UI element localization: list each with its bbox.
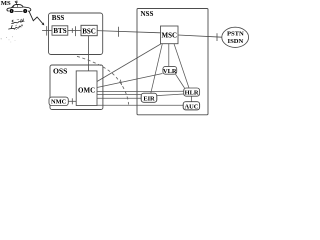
OSS box xyxy=(50,65,103,110)
NMC box xyxy=(49,97,68,106)
wire VLR to HLR xyxy=(176,74,185,88)
BSS box xyxy=(49,13,103,55)
wire OMC to VLR xyxy=(97,74,163,88)
EIR box xyxy=(141,93,157,102)
tick on OMC-VLR wire xyxy=(120,80,121,85)
tick Abis interface a xyxy=(71,28,73,33)
OMC box xyxy=(76,71,97,106)
wire Um stub into BTS xyxy=(42,29,52,31)
svg-text:VLR: VLR xyxy=(163,68,177,75)
wire HLR to AUC xyxy=(191,96,193,102)
tick A interface xyxy=(118,27,120,37)
MS antenna xyxy=(15,1,18,4)
wire BSC to MSC (A interface) xyxy=(97,31,160,33)
svg-text:EIR: EIR xyxy=(143,95,155,102)
wire OMC to EIR upper xyxy=(97,94,141,96)
svg-text:BTS: BTS xyxy=(53,27,66,35)
wire MSC to PSTN xyxy=(178,35,222,37)
PSTN ISDN ellipse xyxy=(222,27,249,47)
wire MSC to HLR xyxy=(174,44,189,88)
wire OMC to AUC xyxy=(97,104,183,106)
wire EIR to HLR xyxy=(157,94,184,96)
label air-interface Arabic text line2 xyxy=(9,25,23,30)
AUC box xyxy=(183,102,199,111)
NSS box xyxy=(137,9,208,115)
label air-interface Arabic text line1 xyxy=(12,19,24,24)
wire MSC to OMC xyxy=(97,44,161,82)
svg-text:OSS: OSS xyxy=(53,66,67,75)
dashed O and M boundary arc xyxy=(77,56,129,104)
svg-text:AUC: AUC xyxy=(184,103,198,110)
mobile station MS car icon xyxy=(7,4,31,13)
wire MSC to EIR xyxy=(151,44,163,93)
radio link zigzag arrow xyxy=(29,11,44,25)
svg-text:HLR: HLR xyxy=(185,90,199,97)
tick PSTN link xyxy=(216,33,218,41)
tick Abis interface b xyxy=(75,26,77,36)
svg-text:NSS: NSS xyxy=(141,10,154,18)
wire OMC to EIR lower xyxy=(97,97,141,99)
tick NMC link xyxy=(71,98,73,104)
svg-text:NMC: NMC xyxy=(51,99,67,106)
BSC box xyxy=(81,25,97,35)
svg-text:MS: MS xyxy=(1,0,11,7)
svg-text:ISDN: ISDN xyxy=(228,38,244,45)
wire MSC to VLR xyxy=(168,44,170,67)
wire BSC down to OMC xyxy=(88,36,90,71)
MSC box xyxy=(161,26,179,44)
HLR box xyxy=(184,88,200,97)
BTS box xyxy=(52,26,68,35)
svg-text:MSC: MSC xyxy=(162,32,178,40)
scan speckle xyxy=(1,36,16,42)
VLR box xyxy=(163,66,177,75)
wire BTS to BSC xyxy=(68,29,81,31)
svg-text:BSC: BSC xyxy=(82,27,96,35)
wire NMC to OMC xyxy=(68,100,76,102)
svg-text:BSS: BSS xyxy=(52,14,65,22)
wire OMC to HLR xyxy=(97,90,184,92)
tick Um interface xyxy=(46,26,48,35)
svg-text:PSTN: PSTN xyxy=(227,31,244,38)
svg-text:OMC: OMC xyxy=(78,86,95,94)
